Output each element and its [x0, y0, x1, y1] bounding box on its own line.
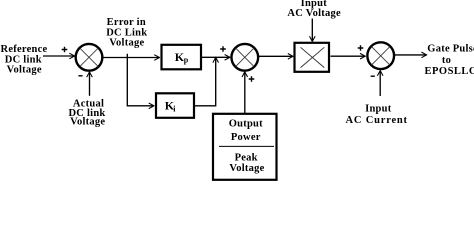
- svg-text:EPOSLLC: EPOSLLC: [425, 66, 474, 77]
- svg-text:AC Voltage: AC Voltage: [287, 8, 341, 19]
- svg-text:i: i: [173, 104, 176, 113]
- svg-text:Voltage: Voltage: [109, 38, 144, 49]
- svg-text:p: p: [184, 55, 189, 64]
- svg-text:Power: Power: [231, 132, 261, 143]
- svg-text:Voltage: Voltage: [229, 163, 264, 174]
- svg-text:Input: Input: [365, 104, 392, 115]
- svg-text:to: to: [442, 55, 451, 66]
- svg-text:Voltage: Voltage: [70, 117, 105, 128]
- svg-text:Reference: Reference: [1, 44, 48, 55]
- svg-text:Voltage: Voltage: [7, 64, 42, 75]
- svg-text:Output: Output: [229, 118, 263, 129]
- svg-text:AC Current: AC Current: [346, 115, 408, 126]
- svg-text:Peak: Peak: [235, 153, 258, 164]
- svg-text:Gate Pulse: Gate Pulse: [427, 44, 474, 55]
